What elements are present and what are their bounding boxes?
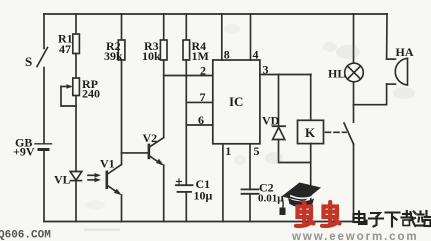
- relay contact: [344, 123, 354, 144]
- wire top supply rail: [44, 13, 387, 15]
- scan smudge artifacts: [84, 24, 415, 231]
- svg-text:39k: 39k: [104, 49, 123, 63]
- svg-text:V2: V2: [143, 131, 158, 145]
- wire relay K to bottom rail: [310, 144, 312, 222]
- svg-text:www.eeworm.com: www.eeworm.com: [291, 231, 419, 241]
- resistor R1: [73, 34, 80, 54]
- svg-text:VD: VD: [262, 114, 280, 128]
- wire pin3 (IC right to relay node): [260, 74, 311, 76]
- wire pin3 node down to relay K: [310, 75, 312, 121]
- wire RP to VL: [75, 96, 77, 172]
- 下: [386, 213, 400, 227]
- wire rail to R2: [121, 14, 123, 40]
- svg-text:Q606.COM: Q606.COM: [0, 230, 51, 241]
- wire VL to bottom rail: [75, 181, 77, 222]
- LED VL: [70, 172, 82, 181]
- svg-text:2: 2: [200, 64, 206, 78]
- wire HL to contact: [353, 82, 355, 123]
- diode VD: [273, 126, 286, 139]
- wire R2 to V1 collector: [121, 60, 123, 165]
- wire rail to R4: [185, 14, 187, 40]
- wire V1 collector to V2 base: [122, 152, 149, 154]
- transistor V2: [149, 138, 164, 166]
- svg-text:K: K: [305, 125, 316, 140]
- watermark site name characters: [354, 211, 431, 227]
- dashed linkage K to contact: [326, 131, 347, 133]
- svg-text:1: 1: [225, 144, 231, 158]
- svg-text:IC: IC: [229, 94, 243, 109]
- relay K: [298, 120, 324, 143]
- svg-text:HA: HA: [396, 45, 414, 59]
- wire HA branch (junction to HA): [354, 84, 387, 105]
- resistor R3: [160, 40, 167, 60]
- svg-text:5: 5: [254, 144, 260, 158]
- 载: [402, 211, 416, 226]
- watermark red characters: [296, 202, 340, 226]
- svg-text:240: 240: [82, 87, 100, 101]
- watermark graduation cap logo: [280, 183, 322, 216]
- 站: [417, 211, 431, 226]
- wire pin2 (R3 node to IC): [164, 75, 213, 77]
- potentiometer RP: [61, 78, 79, 106]
- wire pin7 (R4 node to IC): [186, 101, 213, 103]
- op-amp/timer IC box: [213, 60, 260, 144]
- battery GB: [35, 144, 52, 150]
- wire C1 to bottom rail: [185, 192, 187, 222]
- transistor V1: [107, 165, 122, 196]
- svg-text:1M: 1M: [192, 49, 209, 63]
- svg-text:+9V: +9V: [13, 145, 35, 159]
- svg-text:6: 6: [198, 113, 204, 127]
- wire R3 to V2 collector: [163, 60, 165, 138]
- wire rail to HL: [353, 14, 355, 63]
- switch S: [37, 48, 48, 67]
- 子: [369, 213, 383, 227]
- wire contact to bottom rail: [353, 144, 355, 222]
- wire rail to R1: [75, 14, 77, 34]
- wire rail to HA: [386, 14, 388, 59]
- wire VD to relay bottom node: [279, 140, 311, 163]
- wire rail to R3: [163, 14, 165, 40]
- wire pin5 (IC bottom to C2): [249, 144, 251, 190]
- wire R4 down to C1: [185, 60, 187, 185]
- lamp HL: [345, 63, 364, 82]
- svg-text:3: 3: [263, 63, 269, 77]
- svg-text:VL: VL: [54, 173, 71, 187]
- wire C2 to bottom rail: [249, 194, 251, 222]
- wire battery to bottom rail: [43, 151, 45, 222]
- wire pin8 (rail to IC top): [221, 14, 223, 60]
- wire left column upper (rail to switch): [43, 14, 45, 49]
- svg-text:0.01μ: 0.01μ: [258, 193, 284, 205]
- wire switch to battery: [43, 68, 45, 144]
- svg-text:HL: HL: [328, 67, 345, 81]
- wire V1 emitter to bottom rail: [121, 195, 123, 222]
- wire R1 to RP: [75, 54, 77, 79]
- svg-text:10μ: 10μ: [194, 189, 213, 203]
- capacitor C2: [242, 189, 259, 193]
- svg-text:47: 47: [59, 42, 71, 56]
- sounder HA: [387, 58, 408, 85]
- 电: [354, 212, 367, 225]
- svg-text:V1: V1: [100, 157, 115, 171]
- resistor R2: [118, 40, 125, 60]
- wire pin1 (IC bottom to ground rail): [222, 144, 224, 222]
- svg-text:S: S: [25, 54, 32, 69]
- resistor R4: [183, 40, 190, 60]
- svg-text:7: 7: [200, 90, 206, 104]
- wire V2 emitter to bottom rail: [163, 165, 165, 221]
- capacitor C1: [176, 179, 193, 192]
- wire bottom ground rail: [44, 221, 354, 223]
- light arrows VL to V1: [88, 173, 101, 182]
- svg-text:10k: 10k: [142, 49, 161, 63]
- wire pin6 (R4 node to IC): [186, 124, 213, 126]
- svg-text:4: 4: [253, 48, 259, 62]
- wire pin4 (rail to IC top): [250, 14, 252, 60]
- wire pin3 node down to VD: [278, 75, 280, 127]
- svg-text:8: 8: [224, 48, 230, 62]
